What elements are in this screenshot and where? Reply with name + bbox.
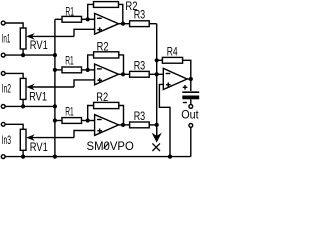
op-amp inverting pin mark xyxy=(97,68,102,70)
svg-text:RV1: RV1 xyxy=(30,142,48,154)
resistor R1 channel 3 xyxy=(55,120,62,122)
op-amp U2 xyxy=(95,64,119,85)
wire wiper to op-amp + input xyxy=(74,80,95,87)
op-amp non-inverting pin mark xyxy=(97,79,102,81)
potentiometer RV1 channel 1 wiper arrow xyxy=(31,35,74,37)
potentiometer RV1 channel 1 body xyxy=(20,28,26,49)
capacitor C1 polarity plus xyxy=(183,86,188,88)
op-amp U1 xyxy=(95,13,119,34)
ground bus wire vertical xyxy=(54,19,56,156)
wire pot bottom xyxy=(22,99,24,106)
junction inverting input node xyxy=(86,118,90,122)
junction R1 to ground bus xyxy=(53,118,57,122)
resistor R2 channel 1 feedback xyxy=(88,4,94,19)
op-amp U4 non-inverting pin mark xyxy=(166,84,171,86)
wire input to pot xyxy=(5,124,23,129)
wire bottom to ground bus xyxy=(5,54,55,56)
junction + input ground xyxy=(168,155,172,159)
potentiometer RV1 channel 3 body xyxy=(20,129,26,150)
wire pot bottom xyxy=(22,150,24,156)
junction inverting input node xyxy=(86,68,90,72)
op-amp U3 xyxy=(95,115,119,136)
junction output node xyxy=(121,72,125,76)
junction summing bus xyxy=(155,72,159,76)
resistor R2 channel 3 feedback xyxy=(88,106,94,121)
svg-text:R2: R2 xyxy=(97,41,109,53)
junction summing node xyxy=(155,72,159,76)
potentiometer RV1 channel 3 wiper arrow xyxy=(31,137,74,139)
wire output to capacitor C1 xyxy=(190,79,192,91)
svg-text:In3: In3 xyxy=(2,135,12,147)
X connection symbol xyxy=(152,143,160,151)
junction ground bus xyxy=(53,104,57,108)
ground rail wire bottom xyxy=(5,156,191,158)
op-amp inverting pin mark xyxy=(97,17,102,19)
svg-text:R1: R1 xyxy=(65,107,74,119)
capacitor C1 polarity minus xyxy=(183,102,187,104)
capacitor C1 bottom plate xyxy=(182,96,199,100)
wire op-amp output xyxy=(119,124,130,126)
wire op-amp output xyxy=(119,23,130,25)
resistor R3 channel 1 xyxy=(130,21,150,27)
junction output node xyxy=(121,123,125,127)
wire bottom to ground bus xyxy=(5,105,55,107)
resistor R3 channel 3 xyxy=(130,122,150,128)
junction inverting input node xyxy=(86,17,90,21)
wire op-amp output xyxy=(119,73,130,75)
wire to inverting input of U4 xyxy=(157,73,164,75)
junction ground bus xyxy=(53,53,57,57)
svg-text:R1: R1 xyxy=(65,6,74,18)
junction output node xyxy=(189,77,193,81)
input terminal In2 bottom xyxy=(1,105,5,109)
wire U4 + input to ground rail xyxy=(159,84,170,156)
svg-text:In2: In2 xyxy=(2,83,12,95)
wire input to pot xyxy=(5,23,23,28)
svg-text:R2: R2 xyxy=(96,92,108,104)
input terminal In3 top xyxy=(1,122,5,126)
op-amp non-inverting pin mark xyxy=(97,130,102,132)
op-amp non-inverting pin mark xyxy=(97,29,102,31)
op-amp U4 inverting pin mark xyxy=(166,73,171,75)
svg-text:SM0VPO: SM0VPO xyxy=(87,141,134,153)
output terminal Out ground xyxy=(189,124,193,128)
resistor R1 channel 2 xyxy=(55,69,62,71)
junction R1 to ground bus xyxy=(53,68,57,72)
svg-text:Out: Out xyxy=(181,110,199,122)
svg-text:R3: R3 xyxy=(134,9,146,21)
resistor R2 channel 2 feedback xyxy=(88,55,94,70)
junction pot bottom xyxy=(21,104,25,108)
resistor R3 channel 2 xyxy=(130,71,150,77)
junction summing bus xyxy=(155,123,159,127)
svg-text:R1: R1 xyxy=(65,56,74,68)
junction pot bottom xyxy=(21,53,25,57)
input terminal In1 bottom xyxy=(1,53,5,57)
arrow to negative supply xyxy=(156,128,158,137)
wire wiper to op-amp + input xyxy=(74,131,95,138)
input terminal In2 top xyxy=(1,72,5,76)
svg-text:RV1: RV1 xyxy=(30,40,48,52)
junction output node xyxy=(121,22,125,26)
wire out ground to rail xyxy=(190,127,192,156)
wire capacitor C1 to Out terminal xyxy=(190,99,192,104)
junction ground bus to bottom rail xyxy=(53,155,57,159)
summing bus wire xyxy=(156,24,158,136)
junction pot 3 bottom xyxy=(21,155,25,159)
svg-text:R4: R4 xyxy=(167,47,178,59)
resistor R4 feedback xyxy=(157,59,163,61)
wire U4 output xyxy=(187,78,191,80)
potentiometer RV1 channel 2 body xyxy=(20,78,26,99)
capacitor C1 top plate xyxy=(182,91,199,93)
op-amp U4 output stage xyxy=(163,68,187,89)
potentiometer RV1 channel 2 wiper arrow xyxy=(31,86,74,88)
wire pot bottom xyxy=(22,49,24,55)
op-amp inverting pin mark xyxy=(97,119,102,121)
svg-text:In1: In1 xyxy=(2,34,11,46)
svg-text:R3: R3 xyxy=(134,60,146,72)
output terminal Out signal xyxy=(189,105,193,109)
wire wiper to op-amp + input xyxy=(74,29,95,36)
input terminal In3 bottom xyxy=(1,155,5,159)
svg-text:R3: R3 xyxy=(134,111,146,123)
resistor R1 channel 1 xyxy=(55,18,62,20)
junction R4 tap xyxy=(155,58,159,62)
wire input to pot xyxy=(5,73,23,78)
svg-text:RV1: RV1 xyxy=(29,91,47,103)
input terminal In1 top xyxy=(1,21,5,25)
